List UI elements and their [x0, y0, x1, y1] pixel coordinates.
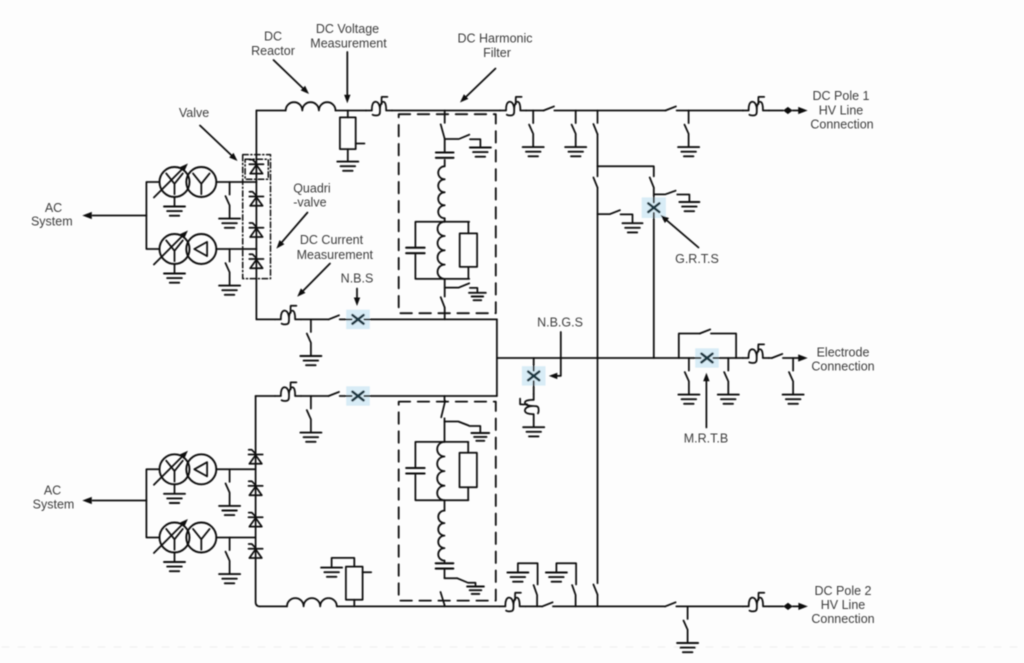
current transducer at pole 2 line exit	[743, 593, 769, 612]
box: DC harmonic filter pole 1 (dashed)	[399, 114, 496, 313]
DC current measurement transducer pole 1	[275, 306, 301, 325]
svg-text:M.R.T.B: M.R.T.B	[684, 432, 728, 446]
earth switch at electrode exit	[789, 358, 793, 394]
disconnector+earth switch on pole 1 bus (mid)	[572, 111, 576, 147]
disconnector on neutral 1	[329, 315, 339, 319]
thyristor valve 4 pole 1	[249, 254, 263, 268]
svg-text:DC Pole 1: DC Pole 1	[813, 89, 870, 103]
capacitor in RLC block 2	[406, 468, 424, 474]
parallel RLC block filter 2	[415, 442, 468, 500]
svg-text:Filter: Filter	[483, 46, 511, 60]
earth switch on neutral 2	[307, 396, 311, 432]
disconnector in M.R.T.B bypass	[700, 329, 710, 333]
wire: DC Pole 2 HV bus	[260, 605, 801, 607]
wire: transformer secondaries to valves pole 1	[146, 182, 256, 249]
wire: filter 2 chain top	[444, 396, 446, 442]
disconnector+earth switch on pole 1 bus (left)	[529, 111, 533, 147]
wire: neutral tie vertical	[496, 319, 498, 396]
thyristor valve 3 pole 1	[249, 223, 263, 237]
thyristor valve 1 pole 1	[249, 160, 263, 174]
wire: filter 2 chain bottom	[444, 500, 446, 510]
transformer pole 1 lower (Y-D)	[154, 228, 216, 282]
svg-text:HV Line: HV Line	[821, 598, 866, 612]
svg-text:Connection: Connection	[810, 118, 873, 132]
earth switch on upper valve feed pole 2	[226, 469, 230, 505]
wire: AC system arrow pole 2	[93, 500, 147, 502]
earth switch filter 2 bottom	[445, 578, 476, 586]
svg-text:Measurement: Measurement	[297, 248, 374, 262]
svg-text:HV Line: HV Line	[819, 104, 864, 118]
svg-text:N.B.G.S: N.B.G.S	[537, 316, 583, 330]
inductor in RLC block 2	[437, 442, 444, 500]
faint scan artifact	[2, 646, 1022, 648]
wire: vertical tie from pole 1 bus down to pole 2 bus	[597, 111, 599, 607]
inductor filter 1	[438, 166, 444, 218]
earth switch at G.R.T.S	[654, 191, 690, 202]
svg-text:DC Current: DC Current	[300, 233, 364, 247]
wire: electrode bus	[497, 357, 801, 359]
svg-text:DC: DC	[264, 30, 282, 44]
earth switch right of M.R.T.B	[724, 358, 728, 394]
disconnector+earth switch on pole 1 bus (right)	[685, 111, 689, 147]
wire: pole 1 neutral bus	[256, 318, 497, 320]
svg-text:G.R.T.S: G.R.T.S	[675, 252, 719, 266]
current transducer electrode line	[743, 344, 769, 363]
voltage divider: DC voltage measurement pole 1	[347, 111, 349, 161]
transformer pole 2 lower (Y-Y)	[154, 517, 216, 571]
wire: pole 2 valve riser	[256, 396, 260, 606]
wire: DC Pole 1 HV bus	[257, 110, 801, 112]
wire: G.R.T.S branch	[598, 166, 654, 358]
disconnector above G.R.T.S	[650, 177, 654, 187]
node: DC pole 2 line terminal diamond	[783, 603, 793, 610]
thyristor valve 3 pole 2	[249, 513, 263, 527]
disconnector in pole 1 bus	[544, 106, 554, 110]
wire: transformer secondaries to valves pole 2	[146, 469, 255, 537]
svg-text:DC Pole 2: DC Pole 2	[815, 584, 872, 598]
disconnector top of tie line	[593, 124, 597, 134]
inductor in RLC block 1	[438, 222, 445, 279]
M.R.T.B bypass loop	[679, 334, 736, 359]
earth switch on lower valve feed pole 2	[226, 538, 230, 574]
inductor: DC reactor pole 2	[287, 598, 337, 606]
earth switch on neutral 1	[307, 319, 311, 355]
current transducer pole 2 bus	[500, 593, 526, 612]
box: quadri-valve (dash-dot)	[243, 155, 271, 279]
svg-text:Quadri: Quadri	[293, 182, 331, 196]
disconnector filter 2 bottom	[441, 592, 445, 605]
current transducer at pole 1 line exit	[743, 97, 769, 116]
current transducer before line switch	[500, 97, 526, 116]
svg-text:Reactor: Reactor	[251, 44, 295, 58]
earth switch filter 1 top	[445, 135, 481, 147]
svg-text:Connection: Connection	[811, 612, 874, 626]
earth switch filter 1 bottom	[445, 283, 478, 292]
earth switch reaching up on pole 2 bus (left)	[518, 563, 538, 606]
svg-text:AC: AC	[45, 201, 62, 215]
svg-text:System: System	[33, 497, 75, 511]
disconnector in pole 1 bus (right)	[666, 106, 676, 110]
svg-text:Valve: Valve	[179, 106, 209, 120]
breaker N.B.G.S	[522, 366, 546, 385]
disconnector filter 2 top	[441, 401, 445, 418]
box: single valve (dash-dot)	[245, 159, 268, 179]
thyristor valve 1 pole 2	[249, 450, 263, 464]
svg-text:DC Harmonic: DC Harmonic	[457, 32, 532, 46]
svg-text:-valve: -valve	[293, 196, 326, 210]
disconnector on tie line	[593, 177, 597, 187]
parallel RLC block filter 1	[415, 222, 469, 279]
svg-text:System: System	[31, 214, 73, 228]
breaker M.R.T.B	[695, 348, 719, 367]
transformer pole 2 upper (Y-D)	[154, 449, 216, 503]
thyristor valve 4 pole 2	[249, 544, 263, 558]
svg-text:AC: AC	[44, 483, 61, 497]
disconnector in pole 2 bus (right)	[665, 602, 675, 606]
wire: filter 1 chain bottom	[444, 279, 446, 320]
disconnector electrode line	[772, 354, 782, 358]
svg-text:Electrode: Electrode	[817, 346, 870, 360]
earth switch on tie line	[598, 210, 633, 223]
earth switch on lower valve feed pole 1	[226, 249, 230, 285]
wire: pole 1 valve riser	[255, 111, 257, 320]
resistor in RLC block 2	[460, 453, 477, 487]
node: DC pole 1 line terminal diamond	[783, 107, 793, 114]
wire: filter 1 chain top	[444, 111, 446, 152]
svg-text:DC Voltage: DC Voltage	[316, 22, 379, 36]
breaker N.B.S pole 2	[346, 386, 370, 405]
earth switch reaching up on pole 2 bus (right)	[556, 563, 576, 606]
capacitor in RLC block 1	[406, 248, 424, 254]
svg-text:Connection: Connection	[811, 360, 874, 374]
breaker N.B.S pole 1	[346, 310, 370, 329]
thyristor valve 2 pole 2	[249, 481, 263, 495]
resistor in RLC block 1	[460, 233, 477, 267]
thyristor valve 2 pole 1	[249, 192, 263, 206]
wire: N.B.G.S branch	[533, 358, 535, 426]
box: DC harmonic filter pole 2 (dashed)	[399, 402, 496, 601]
breaker G.R.T.S	[642, 197, 666, 218]
DC current measurement transducer pole 2	[275, 382, 301, 401]
disconnector in pole 2 bus (left)	[542, 602, 552, 606]
earth switch filter 2 top	[445, 422, 481, 433]
wire: AC system arrow pole 1	[93, 215, 147, 217]
voltage divider: DC voltage measurement pole 2	[332, 558, 355, 607]
inductor: DC reactor pole 1	[286, 102, 336, 110]
current transducer N.B.G.S branch	[520, 394, 539, 420]
svg-text:N.B.S: N.B.S	[341, 272, 374, 286]
earth switch left of M.R.T.B	[685, 358, 689, 394]
capacitor filter 1	[436, 153, 454, 158]
disconnector+earth switch on pole 2 bus	[684, 606, 688, 642]
inductor filter 2	[438, 511, 444, 561]
disconnector filter 1 bottom	[441, 297, 445, 307]
wire: pole 2 neutral bus	[256, 395, 497, 397]
current transducer on pole 1 bus	[366, 97, 392, 116]
transformer pole 1 upper (Y-Y)	[154, 161, 216, 215]
capacitor filter 2	[436, 563, 454, 568]
disconnector on neutral 2	[329, 392, 339, 396]
earth switch on upper valve feed pole 1	[226, 182, 230, 218]
disconnector filter 1 top	[441, 124, 445, 138]
disconnector bottom of tie line	[593, 584, 597, 594]
svg-text:Measurement: Measurement	[310, 37, 387, 51]
